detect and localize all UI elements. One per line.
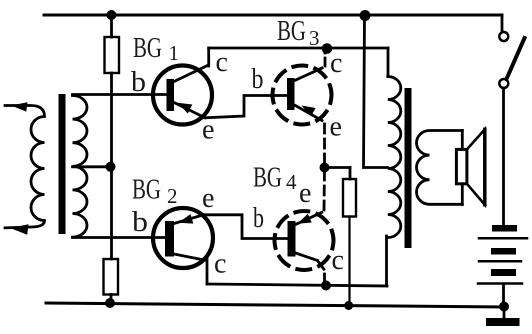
svg-text:BG: BG [132, 174, 161, 206]
svg-text:b: b [252, 64, 264, 95]
svg-text:BG: BG [133, 32, 162, 64]
svg-text:b: b [253, 203, 264, 234]
svg-text:e: e [202, 115, 214, 146]
svg-text:c: c [330, 48, 342, 79]
svg-text:b: b [132, 207, 148, 238]
svg-text:2: 2 [167, 184, 178, 208]
svg-text:e: e [330, 112, 342, 143]
svg-text:c: c [216, 47, 228, 78]
svg-text:3: 3 [309, 26, 320, 50]
svg-text:c: c [332, 245, 344, 276]
svg-text:e: e [299, 178, 311, 209]
svg-text:4: 4 [286, 170, 297, 194]
svg-text:BG: BG [277, 15, 306, 47]
svg-text:1: 1 [169, 41, 180, 65]
svg-text:BG: BG [253, 162, 282, 194]
svg-text:c: c [214, 249, 226, 280]
svg-text:b: b [131, 67, 146, 98]
svg-text:e: e [202, 183, 214, 214]
